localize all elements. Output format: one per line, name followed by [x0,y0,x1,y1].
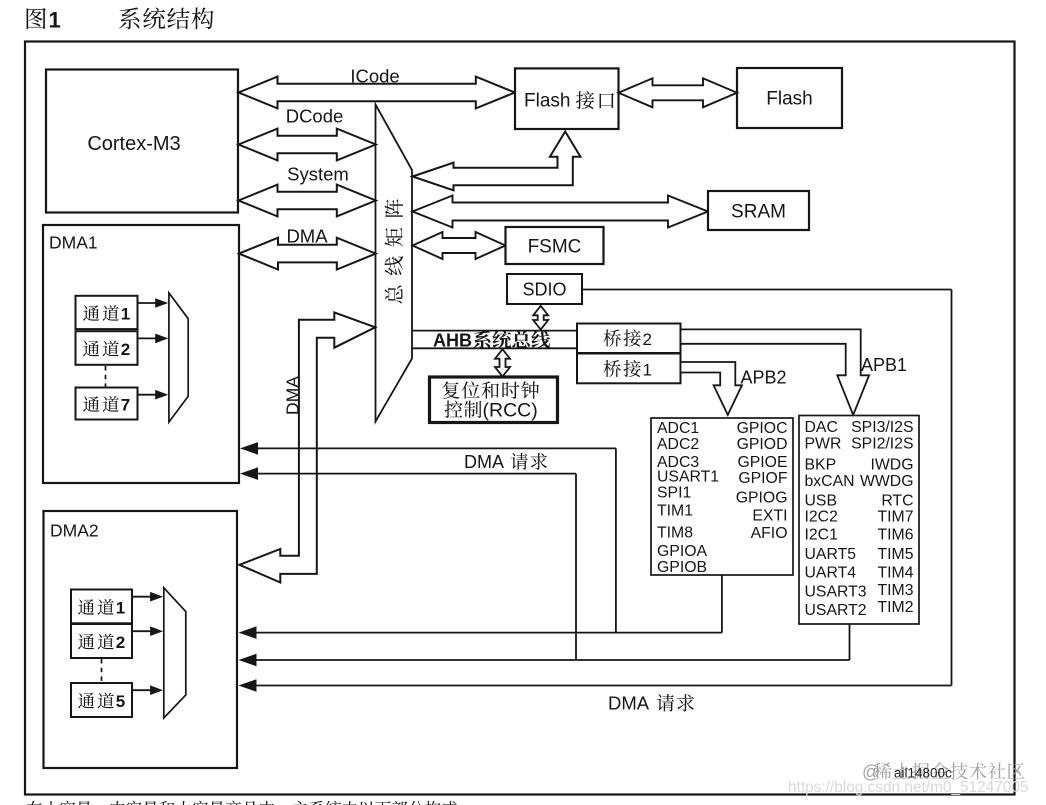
svg-text:GPIOC: GPIOC [737,420,788,437]
svg-text:System: System [287,164,349,185]
svg-text:EXTI: EXTI [752,507,787,524]
svg-text:Flash: Flash [524,91,570,112]
svg-text:GPIOG: GPIOG [736,490,788,507]
svg-text:I2C2: I2C2 [805,509,838,526]
svg-text:TIM6: TIM6 [878,527,914,544]
svg-text:1: 1 [49,7,61,32]
svg-text:AFIO: AFIO [751,525,788,542]
svg-text:2: 2 [121,340,130,359]
svg-text:ICode: ICode [350,66,399,87]
svg-text:PWR: PWR [805,436,842,453]
svg-text:SPI1: SPI1 [657,485,691,502]
svg-text:TIM8: TIM8 [657,525,693,542]
svg-text:SPI2/I2S: SPI2/I2S [851,436,913,453]
svg-text:7: 7 [121,396,130,415]
svg-text:GPIOA: GPIOA [657,543,707,560]
svg-text:https://blog.csdn.net/m0_51247: https://blog.csdn.net/m0_51247005 [788,779,1028,796]
svg-text:USART1: USART1 [657,469,719,486]
svg-text:ADC2: ADC2 [657,436,699,453]
svg-text:TIM3: TIM3 [878,582,914,599]
svg-text:DMA: DMA [283,376,303,415]
svg-text:1: 1 [121,304,130,323]
svg-text:I2C1: I2C1 [805,527,839,544]
svg-text:5: 5 [116,692,125,711]
svg-text:DMA: DMA [286,226,328,247]
svg-text:DCode: DCode [286,106,344,127]
svg-text:APB2: APB2 [741,368,787,388]
svg-text:DMA1: DMA1 [49,233,98,253]
svg-text:USART3: USART3 [805,584,867,601]
svg-text:ADC1: ADC1 [657,420,699,437]
svg-text:2: 2 [116,633,125,652]
svg-text:(RCC): (RCC) [483,400,538,422]
svg-text:UART5: UART5 [805,546,857,563]
svg-text:TIM2: TIM2 [878,599,914,616]
svg-text:FSMC: FSMC [528,237,582,258]
svg-text:WWDG: WWDG [860,473,914,490]
svg-text:Flash: Flash [766,89,812,110]
svg-text:GPIOB: GPIOB [657,559,707,576]
svg-text:2: 2 [643,330,652,349]
svg-text:TIM7: TIM7 [878,509,914,526]
svg-text:DMA: DMA [608,693,650,714]
svg-text:SRAM: SRAM [731,202,786,223]
svg-text:TIM1: TIM1 [657,502,693,519]
svg-text:APB1: APB1 [861,355,907,375]
svg-text:bxCAN: bxCAN [805,473,855,490]
svg-text:USART2: USART2 [805,602,867,619]
svg-text:BKP: BKP [805,456,837,473]
svg-text:Cortex-M3: Cortex-M3 [87,133,180,155]
svg-text:RTC: RTC [881,492,913,509]
svg-text:GPIOD: GPIOD [737,436,788,453]
svg-text:SPI3/I2S: SPI3/I2S [851,419,913,436]
svg-text:TIM4: TIM4 [878,564,914,581]
svg-text:GPIOE: GPIOE [737,454,787,471]
svg-text:USB: USB [805,492,837,509]
svg-text:GPIOF: GPIOF [738,470,787,487]
svg-text:UART4: UART4 [805,564,857,581]
svg-text:DMA2: DMA2 [50,521,99,541]
svg-text:TIM5: TIM5 [878,546,914,563]
svg-text:1: 1 [116,598,125,617]
svg-text:DMA: DMA [464,452,504,472]
svg-text:DAC: DAC [805,419,838,436]
svg-text:AHB: AHB [433,331,472,351]
svg-text:IWDG: IWDG [871,456,914,473]
svg-text:SDIO: SDIO [522,280,566,300]
svg-text:1: 1 [643,361,652,380]
